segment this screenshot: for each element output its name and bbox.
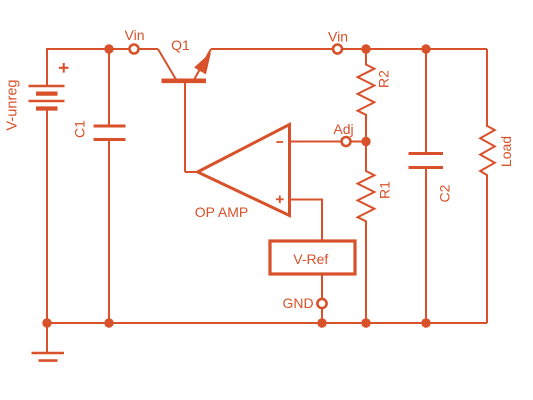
node junction C1 bottom: [104, 318, 113, 327]
node junction ground left: [42, 318, 51, 327]
op-amp input polarity signs: [276, 142, 284, 203]
node Adj terminal: [342, 137, 351, 146]
op-amp minus sign: [276, 141, 283, 143]
open terminal circles: [130, 45, 351, 309]
wire battery negative lead: [46, 109, 48, 324]
resistor R1: [358, 142, 375, 324]
capacitor C1: [94, 126, 126, 140]
svg-text:C2: C2: [437, 184, 453, 202]
wire top rail right (emitter to load corner): [211, 48, 487, 50]
node Vin right terminal: [333, 45, 342, 54]
V-Ref box U2: [270, 241, 355, 274]
node GND terminal: [317, 299, 326, 308]
op-amp U1: [185, 125, 290, 216]
svg-text:C1: C1: [72, 120, 88, 138]
node junction C2 bottom: [421, 318, 430, 327]
node junction R2 top: [361, 44, 370, 53]
svg-text:Q1: Q1: [171, 37, 190, 53]
wire top rail left (battery to transistor): [47, 49, 158, 86]
node junction Adj: [361, 137, 370, 146]
transistor Q1: [158, 49, 211, 172]
wire C1 branch: [108, 49, 110, 323]
node junction Vin-C1 top: [104, 44, 113, 53]
svg-text:Vin: Vin: [328, 29, 348, 45]
ground: [32, 323, 65, 361]
svg-text:Adj: Adj: [333, 121, 353, 137]
battery V-unreg: [29, 86, 65, 109]
svg-text:Vin: Vin: [125, 27, 145, 43]
svg-text:Load: Load: [498, 136, 514, 167]
resistor R2: [358, 49, 375, 142]
wire op-amp non-inverting input to V-Ref: [290, 200, 323, 242]
wire V-Ref to ground rail: [321, 274, 323, 323]
resistor Load: [480, 49, 495, 323]
op-amp plus sign: [276, 196, 284, 204]
node junction C2 top: [421, 44, 430, 53]
svg-text:R2: R2: [376, 70, 392, 88]
label battery plus: [59, 63, 69, 73]
wire op-amp inverting input to Adj: [290, 141, 367, 143]
svg-text:V-Ref: V-Ref: [293, 251, 328, 267]
svg-text:OP AMP: OP AMP: [195, 204, 248, 220]
node Vin left terminal: [130, 45, 139, 54]
svg-text:R1: R1: [377, 181, 393, 199]
node junction GND bottom: [317, 318, 326, 327]
svg-text:GND: GND: [282, 295, 313, 311]
node junction R1 bottom: [361, 318, 370, 327]
svg-text:V-unreg: V-unreg: [5, 79, 21, 130]
wire C2 branch: [425, 49, 427, 323]
wire bottom rail: [47, 322, 487, 324]
capacitor C2: [409, 154, 444, 168]
